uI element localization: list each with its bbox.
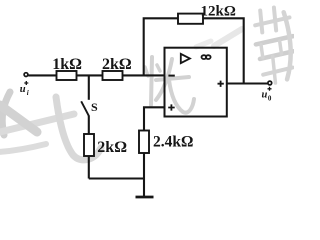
svg-text:S: S	[91, 100, 98, 114]
svg-text:u: u	[20, 84, 26, 95]
svg-text:2.4kΩ: 2.4kΩ	[153, 134, 193, 151]
svg-text:0: 0	[268, 95, 272, 103]
svg-text:u: u	[262, 90, 268, 101]
svg-text:12kΩ: 12kΩ	[201, 3, 236, 19]
svg-text:i: i	[27, 89, 29, 97]
svg-text:1kΩ: 1kΩ	[52, 56, 82, 73]
svg-text:2kΩ: 2kΩ	[102, 56, 132, 73]
svg-text:2kΩ: 2kΩ	[97, 139, 127, 156]
